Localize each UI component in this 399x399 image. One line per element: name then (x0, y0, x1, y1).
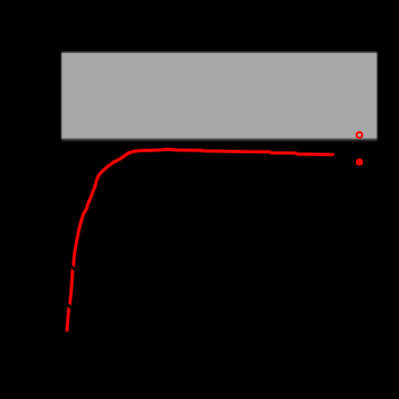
gap cut 2 (black slash over curve) (71, 265, 76, 270)
filled dot marker (356, 158, 364, 166)
red curve (full) (67, 149, 333, 331)
open circle marker (357, 132, 363, 138)
gap cut 1 (black slash over curve) (66, 303, 72, 308)
